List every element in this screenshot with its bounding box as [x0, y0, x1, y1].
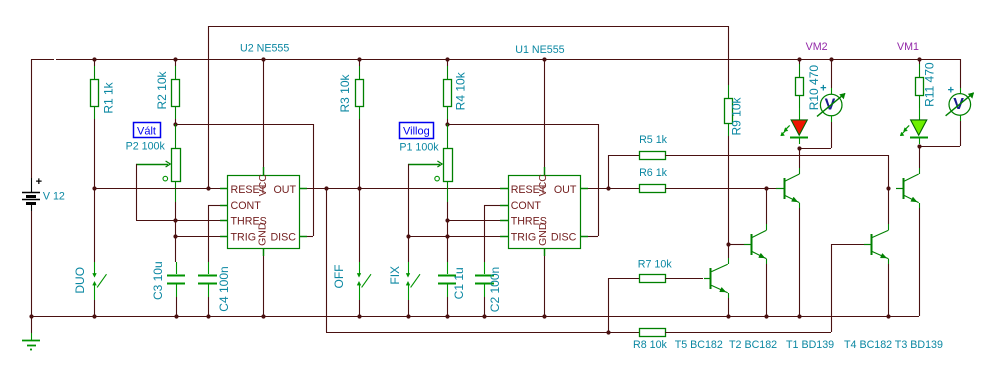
svg-text:TRIG: TRIG	[511, 231, 537, 243]
label Villog	[400, 123, 434, 139]
label R11 470	[923, 62, 937, 107]
wire TRIG row U2	[175, 236, 220, 238]
svg-text:+: +	[820, 83, 826, 95]
switch DUO	[93, 188, 107, 316]
svg-text:R6 1k: R6 1k	[639, 167, 668, 179]
resistor R10	[796, 59, 804, 108]
junction LED2 cathode	[797, 146, 801, 150]
svg-text:TRIG: TRIG	[231, 231, 257, 243]
svg-text:U2 NE555: U2 NE555	[240, 43, 289, 55]
switch OFF	[357, 188, 371, 316]
resistor R3	[356, 59, 364, 188]
node R4/P1/DISC junction	[445, 122, 598, 126]
svg-text:R5 1k: R5 1k	[639, 134, 668, 146]
capacitor C2	[475, 262, 494, 316]
op IC U1 NE555	[500, 167, 588, 256]
junction LED1 cathode	[917, 144, 921, 148]
wire U1 OUT node	[588, 186, 639, 190]
transistor T2 BC182	[744, 188, 767, 316]
label VM1	[897, 41, 919, 53]
svg-text:R8 10k: R8 10k	[633, 339, 668, 351]
resistor R8	[639, 329, 831, 337]
svg-text:P1 100k: P1 100k	[399, 142, 439, 154]
transistor T4 BC182	[864, 186, 891, 316]
label U1 NE555	[515, 44, 564, 56]
label R8 10k	[633, 339, 668, 351]
wire pot bottom to TRIG/C3	[173, 202, 177, 262]
resistor R1	[91, 59, 99, 188]
svg-text:U1 NE555: U1 NE555	[515, 44, 564, 56]
label T4 BC182	[844, 339, 892, 351]
svg-text:V 12: V 12	[43, 191, 65, 203]
svg-text:R7 10k: R7 10k	[638, 259, 673, 271]
svg-text:R3 10k: R3 10k	[338, 73, 352, 112]
resistor R5	[639, 152, 888, 160]
svg-text:DISC: DISC	[551, 231, 577, 243]
wire R5 to T3 base	[888, 155, 890, 188]
wire CONT to C4	[208, 205, 220, 262]
svg-text:C4 100n: C4 100n	[217, 266, 231, 311]
label T1 BD139	[786, 339, 834, 351]
transistor T3 BD139	[896, 146, 920, 316]
svg-text:T3 BD139: T3 BD139	[895, 339, 943, 351]
op IC U2 NE555	[220, 167, 307, 256]
label C4 100n	[217, 266, 231, 311]
transistor T1 BD139	[776, 148, 800, 316]
svg-text:VCC: VCC	[257, 174, 269, 197]
label C1 1u	[452, 267, 466, 299]
label R7 10k	[638, 259, 673, 271]
wire U2 OUT down to R7/R8 line	[326, 188, 639, 335]
wire THRES row U1	[447, 220, 500, 222]
label T2 BC182	[729, 339, 777, 351]
svg-text:R2 10k: R2 10k	[155, 70, 169, 109]
wire U2 VCC to bus	[263, 59, 265, 167]
junction T2 collector / T1 base	[764, 186, 768, 190]
wire U1 GND to ground	[544, 256, 546, 316]
wire U2 RESET row	[92, 186, 220, 190]
label DUO	[73, 267, 87, 294]
label FIX	[388, 266, 402, 285]
svg-text:T1 BD139: T1 BD139	[786, 339, 834, 351]
label R6 1k	[639, 167, 668, 179]
svg-text:T2 BC182: T2 BC182	[729, 339, 777, 351]
wire U1 DISC to pot top	[588, 124, 599, 237]
label R9 10k	[730, 96, 744, 135]
svg-text:C1 1u: C1 1u	[452, 267, 466, 299]
svg-text:R9 10k: R9 10k	[730, 96, 744, 135]
label R2 10k	[155, 70, 169, 109]
label OFF	[332, 265, 346, 289]
LED D2 red	[781, 108, 808, 144]
label C2 100n	[488, 267, 502, 312]
wire P2 wiper to THRES	[136, 164, 220, 221]
capacitor C4	[198, 262, 217, 316]
svg-text:T4 BC182: T4 BC182	[844, 339, 892, 351]
label R3 10k	[338, 73, 352, 112]
voltmeter VM2	[799, 59, 845, 149]
label T3 BD139	[895, 339, 943, 351]
voltmeter VM1	[919, 59, 974, 147]
label R4 10k	[453, 71, 467, 110]
label C3 10u	[151, 261, 165, 300]
resistor R9	[725, 26, 733, 258]
potentiometer P1	[408, 124, 453, 202]
resistor R7	[608, 275, 703, 333]
junction R9 / T2 base	[726, 242, 744, 246]
wire CONT to C2	[484, 205, 500, 262]
svg-text:Vált: Vált	[137, 125, 156, 137]
svg-text:R4 10k: R4 10k	[453, 71, 467, 110]
wire TRIG row U1	[406, 234, 500, 238]
svg-text:FIX: FIX	[388, 266, 402, 285]
label P2 100k	[126, 141, 166, 153]
capacitor C3	[167, 262, 185, 316]
wire U2 DISC to pot top	[307, 124, 314, 237]
label V 12	[43, 191, 65, 203]
wire RESET/U2 top link (y=26)	[208, 26, 728, 188]
resistor R4	[444, 59, 452, 124]
svg-text:R11 470: R11 470	[923, 62, 937, 107]
svg-text:OUT: OUT	[554, 184, 577, 196]
svg-text:P2 100k: P2 100k	[126, 141, 166, 153]
wire P1 wiper to TRIG	[408, 164, 410, 236]
wire OUT riser to R5	[608, 155, 639, 188]
svg-text:Villog: Villog	[403, 126, 430, 138]
svg-text:+: +	[36, 176, 42, 188]
LED D1 green	[900, 108, 928, 144]
capacitor C1	[438, 262, 456, 316]
svg-text:+: +	[948, 84, 954, 96]
junction THRES/pot	[173, 218, 177, 222]
resistor R11	[916, 59, 924, 108]
wire R8 to T4 base	[831, 244, 864, 332]
label P1 100k	[399, 142, 439, 154]
svg-text:OFF: OFF	[332, 265, 346, 289]
node R2/P2/DISC junction	[173, 122, 313, 126]
resistor R6	[639, 185, 776, 193]
potentiometer P2	[136, 124, 181, 202]
svg-text:T5 BC182: T5 BC182	[675, 339, 723, 351]
label R1 1k	[101, 81, 115, 113]
svg-text:R1 1k: R1 1k	[101, 81, 115, 113]
svg-text:VM1: VM1	[897, 41, 919, 53]
svg-text:CONT: CONT	[511, 200, 542, 212]
wire pot P1 bottom to THRES/C1	[445, 202, 449, 262]
svg-text:DUO: DUO	[73, 267, 87, 294]
label R5 1k	[639, 134, 668, 146]
svg-text:C2 100n: C2 100n	[488, 267, 502, 312]
svg-text:VCC: VCC	[537, 174, 549, 197]
svg-text:CONT: CONT	[231, 200, 262, 212]
label VM2	[806, 41, 828, 53]
ground	[22, 316, 40, 350]
svg-text:GND: GND	[256, 222, 268, 246]
transistor T5 BC182	[704, 258, 729, 316]
junction top bus	[92, 57, 921, 61]
svg-text:GND: GND	[537, 222, 549, 246]
label R10 470	[807, 65, 821, 111]
svg-text:OUT: OUT	[273, 184, 296, 196]
switch FIX	[406, 236, 420, 316]
svg-text:C3 10u: C3 10u	[151, 261, 165, 300]
wire U2 GND to ground	[263, 256, 265, 316]
wire U1 VCC to bus	[544, 59, 546, 167]
label T5 BC182	[675, 339, 723, 351]
label Vált	[134, 123, 161, 138]
wire +12V top bus	[31, 59, 960, 61]
label U2 NE555	[240, 43, 289, 55]
wire U2 OUT node	[307, 186, 508, 190]
svg-text:DISC: DISC	[270, 231, 296, 243]
wire ground bus	[29, 314, 919, 318]
resistor R2	[172, 59, 180, 124]
svg-text:R10 470: R10 470	[807, 65, 821, 111]
svg-text:VM2: VM2	[806, 41, 828, 53]
battery V1 (V 12)	[22, 59, 42, 316]
